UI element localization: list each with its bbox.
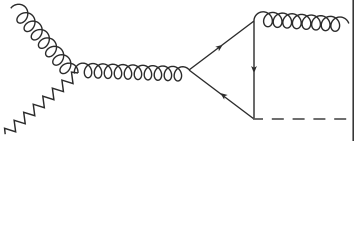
- arrow on upper leg (toward top vertex): [215, 45, 223, 52]
- vertical rule at right edge: [352, 0, 354, 141]
- fermion line T to B (triangle right side): [253, 21, 255, 119]
- gluon G1 (incoming, from top-left): [11, 4, 78, 73]
- dashed scalar line (outgoing, bottom-right): [253, 118, 347, 120]
- gluon G2 (propagator, middle): [74, 63, 189, 81]
- fermion line B to L (triangle lower leg): [189, 70, 254, 119]
- fermion line L to T (triangle upper leg): [189, 21, 254, 70]
- photon zigzag (incoming, from bottom-left): [5, 72, 78, 134]
- arrow on lower leg (toward left vertex): [220, 93, 228, 100]
- arrow on right side (downward): [251, 66, 257, 73]
- gluon G3 (outgoing, top-right): [254, 12, 349, 31]
